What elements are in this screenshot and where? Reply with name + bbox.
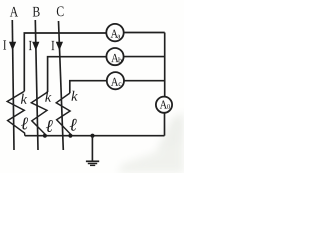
junction dot ground tap — [90, 134, 94, 138]
ammeter A0 circle — [156, 97, 172, 113]
label Aa — [111, 30, 118, 38]
wire phase C vertical — [59, 21, 64, 150]
label A — [10, 7, 18, 17]
winding secondary 1 (k-l) — [7, 91, 25, 135]
wire phase B vertical — [35, 20, 38, 150]
label l winding 3 — [70, 119, 77, 131]
label I phase C — [51, 41, 54, 50]
ammeter Aa circle — [106, 24, 123, 41]
wire riser 2 to ammeter Ab — [48, 57, 107, 92]
label Ab sub — [118, 57, 122, 62]
label A0 — [160, 101, 167, 109]
wire bottom bus — [25, 135, 165, 137]
wire A0 bottom lead — [164, 113, 166, 136]
label B — [33, 7, 40, 17]
ground — [86, 136, 99, 166]
label I phase A — [3, 40, 6, 49]
label Aa sub — [117, 35, 120, 39]
wire riser 3 to ammeter Ac — [70, 81, 107, 93]
wire Aa right to bus — [124, 32, 165, 34]
arrow current phase B — [32, 42, 39, 51]
label l winding 1 — [21, 117, 28, 129]
junction dot winding3-bus — [68, 134, 72, 138]
label k winding 1 — [21, 94, 27, 104]
wire Ab right to bus — [124, 56, 165, 58]
winding secondary 3 (k-l) — [56, 93, 70, 136]
label l winding 2 — [46, 120, 53, 132]
wire riser 1 to ammeter Aa — [24, 33, 106, 91]
label k winding 3 — [72, 91, 78, 101]
arrow current phase A — [9, 42, 16, 51]
wire Ac right to bus — [124, 80, 165, 82]
junction dot winding2-bus — [43, 134, 47, 138]
label Ac — [111, 78, 118, 86]
label C — [57, 6, 64, 16]
winding secondary 2 (k-l) — [31, 92, 47, 136]
label Ac sub — [119, 82, 122, 86]
ammeter Ab circle — [106, 48, 123, 65]
wire right bus vertical — [164, 33, 166, 97]
label Ab — [111, 54, 118, 62]
wire phase A vertical — [12, 20, 14, 150]
ammeter Ac circle — [107, 72, 124, 89]
arrow current phase C — [56, 42, 63, 51]
label A0 sub — [167, 104, 170, 109]
label k winding 2 — [45, 92, 51, 102]
label I phase B — [29, 41, 32, 50]
